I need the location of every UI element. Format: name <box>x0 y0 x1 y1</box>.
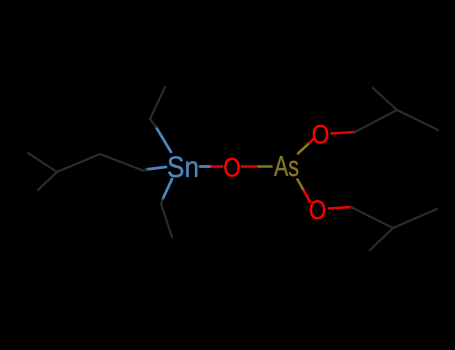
wire bond Sn-C1(up) blue stub <box>156 127 171 152</box>
wire bond O-As bridge olive half <box>259 165 272 168</box>
wire bond Obot-C1 red stub <box>329 207 351 209</box>
wire bond C1-C2 (top right chain, dark) <box>355 110 397 132</box>
wire bond Sn-C1(down) dark half <box>161 200 163 205</box>
wire bond As-Obot olive half <box>298 180 305 192</box>
svg-text:O: O <box>223 153 241 183</box>
wire bond C2-C3a (bottom right branch, dark) <box>393 209 437 228</box>
wire bond C3-C4 (left chain, dark) <box>28 153 57 172</box>
wire bond C1-C2 (down chain, dark) <box>161 204 172 237</box>
wire bond C2-C3b (top right branch, dark) <box>397 110 438 130</box>
wire bond C3-C4b (left chain branch, dark) <box>38 172 57 190</box>
wire bond C2-C3 (left chain, dark) <box>57 154 100 172</box>
wire bond As-Otop red half <box>310 139 314 143</box>
svg-text:As: As <box>274 151 299 183</box>
wire bond C1-C2 (bottom right chain, dark) <box>351 207 393 228</box>
wire bond Sn-C1(up) dark half <box>150 119 156 127</box>
wire bond Sn-C1(down) blue stub <box>163 179 173 200</box>
wire bond As-Obot red half <box>304 191 310 202</box>
svg-text:O: O <box>312 120 330 150</box>
wire bond C1-C2 (left chain, dark) <box>100 154 143 171</box>
wire bond O-As bridge red half <box>242 165 259 168</box>
wire bond As-Otop olive half <box>298 143 310 154</box>
wire bond C2-C3a (top right branch, dark) <box>373 88 397 110</box>
svg-text:O: O <box>309 195 327 225</box>
wire bond Sn-C1(left) blue stub <box>147 167 167 169</box>
wire bond Sn-O bridge red half <box>212 165 223 168</box>
wire bond C1-C2 (up chain, dark) <box>150 87 165 119</box>
wire bond Sn-C1(left) dark half <box>143 169 147 170</box>
wire bond Otop-C1 red stub <box>332 132 356 134</box>
svg-text:Sn: Sn <box>167 151 199 184</box>
wire bond C2-C3b (bottom right branch, dark) <box>370 228 393 250</box>
wire bond Sn-O bridge blue half <box>200 165 212 168</box>
